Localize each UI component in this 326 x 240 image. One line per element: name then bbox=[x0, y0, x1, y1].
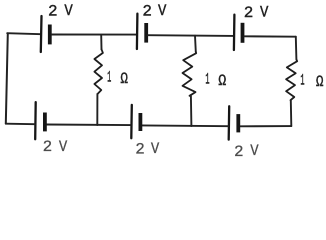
wire top segment C (B2 to battery B3), R2 junction at x=195 bbox=[148, 34, 234, 37]
svg-text:V: V bbox=[59, 138, 68, 156]
wire right lead from top corner down to resistor R3 bbox=[295, 37, 298, 60]
wire top segment D (B3 to top-right corner) bbox=[244, 35, 295, 37]
svg-text:2: 2 bbox=[234, 143, 244, 158]
battery B1 long plate bbox=[40, 16, 43, 52]
label 2 V for battery B5 bbox=[135, 140, 159, 159]
battery B5 long plate bbox=[130, 105, 133, 138]
label 1 Ω for resistor R2 bbox=[205, 70, 226, 90]
svg-text:2: 2 bbox=[135, 141, 145, 158]
label 1 Ω for resistor R1 bbox=[107, 68, 128, 88]
wire bottom segment D (right corner to battery B6) bbox=[240, 125, 291, 127]
resistor R1 zigzag bbox=[94, 49, 103, 94]
svg-text:1: 1 bbox=[107, 68, 111, 86]
battery B6 short thick plate bbox=[236, 114, 240, 132]
label 2 V for battery B6 bbox=[234, 142, 259, 161]
label 2 V for battery B2 bbox=[142, 2, 166, 21]
svg-text:Ω: Ω bbox=[120, 70, 128, 88]
svg-text:Ω: Ω bbox=[316, 73, 324, 91]
battery B1 short thick plate bbox=[48, 25, 52, 45]
battery B2 long plate bbox=[136, 14, 139, 49]
wire lead from R2 down to bottom wire bbox=[190, 96, 193, 126]
svg-text:2: 2 bbox=[142, 3, 152, 21]
wire left vertical bbox=[6, 33, 8, 123]
svg-text:V: V bbox=[260, 3, 269, 21]
battery B2 short thick plate bbox=[144, 23, 148, 43]
svg-text:V: V bbox=[250, 142, 259, 158]
svg-text:1: 1 bbox=[300, 72, 304, 90]
svg-text:Ω: Ω bbox=[218, 72, 226, 90]
svg-text:2: 2 bbox=[244, 4, 254, 22]
wire lead from top wire down to resistor R1 bbox=[100, 35, 102, 50]
svg-text:V: V bbox=[151, 140, 160, 158]
wire bottom segment B (B5 to battery B4), R1 junction at x=97.3 bbox=[47, 124, 131, 127]
svg-text:2: 2 bbox=[43, 138, 53, 156]
wire top segment B (B1 to battery B2), R1 junction at x=101 bbox=[52, 34, 137, 36]
battery B3 short thick plate bbox=[241, 23, 245, 43]
svg-text:1: 1 bbox=[205, 70, 209, 88]
wire lead from top wire down to resistor R2 bbox=[194, 36, 197, 52]
wire lead from R1 down to bottom wire bbox=[96, 94, 98, 125]
label 2 V for battery B1 bbox=[48, 2, 73, 21]
svg-text:2: 2 bbox=[48, 3, 58, 21]
wire lead from R3 down to bottom-right corner bbox=[290, 100, 293, 126]
resistor R3 zigzag bbox=[286, 60, 297, 101]
battery B4 long plate bbox=[34, 102, 37, 139]
label 1 Ω for resistor R3 bbox=[300, 72, 323, 92]
svg-text:V: V bbox=[158, 2, 167, 20]
svg-text:V: V bbox=[64, 2, 73, 20]
wire bottom segment C (B6 to battery B5), R2 junction at x=191.4 bbox=[142, 124, 228, 127]
battery B4 short thick plate bbox=[43, 113, 47, 132]
label 2 V for battery B3 bbox=[244, 3, 269, 22]
battery B6 long plate bbox=[228, 106, 231, 139]
label 2 V for battery B4 bbox=[43, 138, 68, 156]
battery B3 long plate bbox=[233, 15, 236, 50]
resistor R2 zigzag bbox=[183, 52, 197, 96]
wire top segment A (left corner to battery B1) bbox=[7, 33, 41, 34]
battery B5 short thick plate bbox=[138, 113, 142, 131]
wire bottom segment A (B4 to bottom-left corner) bbox=[6, 123, 35, 126]
